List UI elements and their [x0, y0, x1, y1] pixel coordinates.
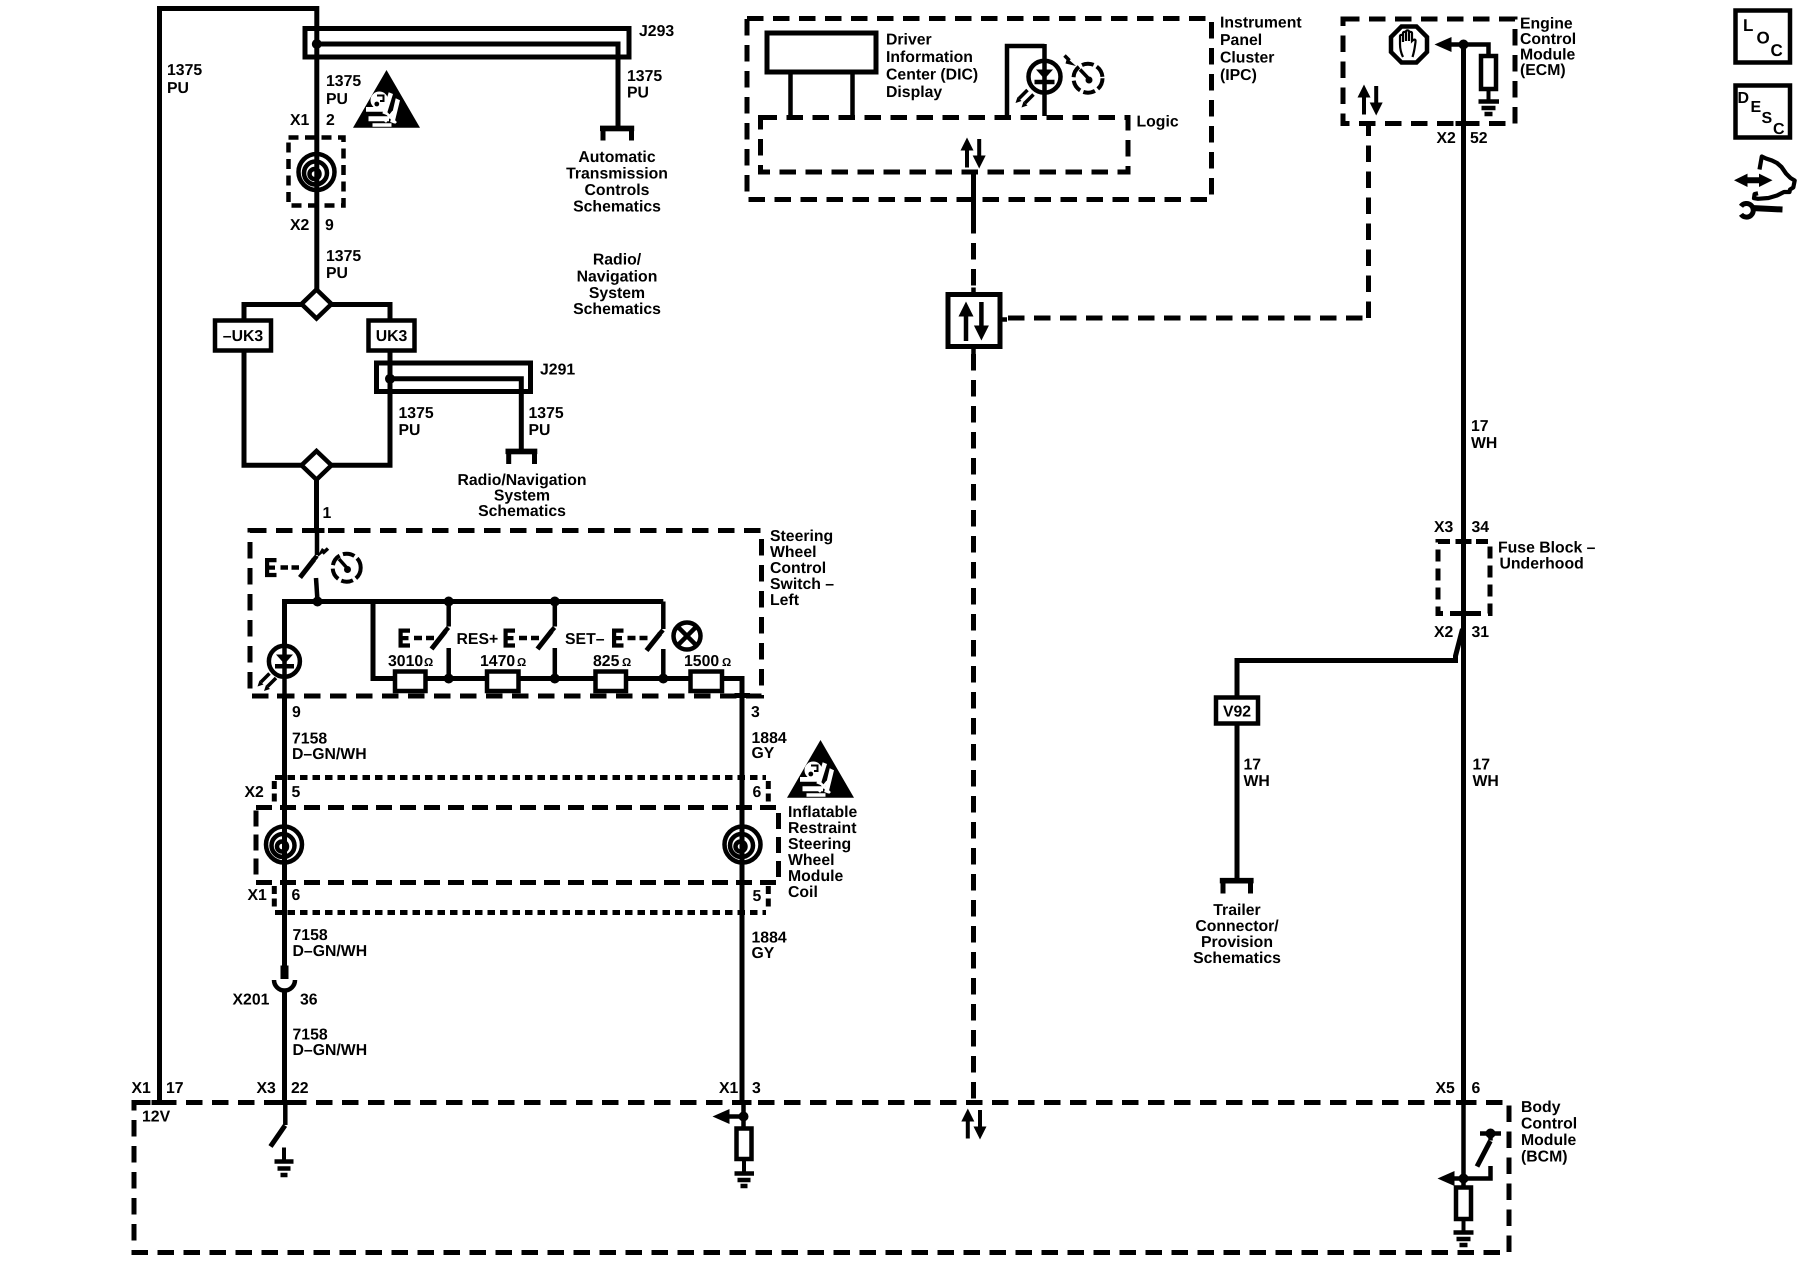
svg-text:Connector/: Connector/	[1195, 918, 1279, 935]
svg-text:17: 17	[1473, 757, 1491, 774]
svg-text:X2: X2	[1437, 130, 1457, 147]
serial data line ECM drop (dashed)	[1366, 124, 1371, 319]
svg-text:Schematics: Schematics	[573, 199, 661, 216]
wire J293 inner bus	[317, 44, 618, 126]
svg-text:Display: Display	[886, 84, 942, 101]
svg-text:52: 52	[1470, 130, 1488, 147]
svg-text:(IPC): (IPC)	[1220, 67, 1257, 84]
switch unit 1 (unlabeled)	[432, 602, 449, 679]
label 17 WH (upper)	[1471, 418, 1497, 452]
label X2 pin 9	[290, 217, 334, 234]
label Radio/Navigation System Schematics (upper)	[573, 252, 661, 319]
svg-text:1375: 1375	[399, 405, 434, 422]
tick X1-3 entry	[736, 1100, 752, 1105]
label Body Control Module (BCM)	[1521, 1099, 1577, 1166]
wire V92 to trailer connector	[1235, 724, 1240, 879]
actuator E symbol (top switch)	[265, 558, 299, 577]
label X1 pin 17	[132, 1080, 184, 1097]
svg-text:22: 22	[291, 1080, 309, 1097]
label Instrument Panel Cluster (IPC)	[1220, 15, 1302, 85]
tick X3-22 entry	[278, 1100, 294, 1105]
label Driver Information Center (DIC) Display	[886, 32, 978, 102]
resistor 3010 ohm	[388, 653, 433, 691]
label Radio/Navigation System Schematics (lower)	[457, 472, 586, 520]
DIC display box	[767, 33, 876, 72]
label 1884 GY (upper)	[752, 730, 787, 762]
label pin 1	[323, 505, 332, 522]
label 12V	[142, 1109, 171, 1126]
option box V92	[1216, 698, 1258, 724]
legend box DESC	[1736, 86, 1791, 139]
actuator E symbol (switch 2)	[504, 629, 540, 648]
svg-text:X1: X1	[248, 887, 268, 904]
svg-text:RES+: RES+	[457, 631, 499, 648]
svg-text:Schematics: Schematics	[478, 503, 566, 520]
LED indicator (IPC)	[1016, 61, 1061, 108]
junction dot rail at RES+	[444, 597, 454, 607]
svg-text:1375: 1375	[326, 248, 361, 265]
svg-text:Left: Left	[770, 592, 800, 609]
legend icon wiring navigation (swoosh outline)	[1754, 157, 1795, 199]
svg-text:1500: 1500	[684, 653, 719, 670]
svg-text:D–GN/WH: D–GN/WH	[293, 943, 368, 960]
svg-text:17: 17	[1471, 418, 1489, 435]
label Logic	[1137, 114, 1179, 131]
junction dot ECM	[1459, 40, 1469, 50]
svg-text:X5: X5	[1436, 1080, 1456, 1097]
serial data line IPC to gateway (dashed)	[971, 217, 976, 288]
option box UK3	[369, 321, 415, 351]
svg-text:12V: 12V	[142, 1109, 171, 1126]
svg-text:5: 5	[292, 784, 301, 801]
component box Body Control Module BCM (dashed)	[134, 1103, 1509, 1253]
svg-text:2: 2	[326, 112, 335, 129]
svg-text:Control: Control	[1521, 1116, 1577, 1133]
label X3 pin 34	[1434, 519, 1489, 536]
label 7158 D-GN/WH (lower)	[293, 1027, 368, 1060]
lamp symbol (circle-X)	[674, 623, 701, 650]
svg-text:PU: PU	[326, 91, 348, 108]
serial data arrows (inside Logic)	[961, 138, 986, 169]
label X1 pin 3	[719, 1080, 761, 1097]
svg-text:Driver: Driver	[886, 32, 932, 49]
label X2 pin 31	[1434, 624, 1489, 641]
switch to ground (X3-22 inside BCM)	[271, 1102, 286, 1147]
svg-text:SET–: SET–	[565, 631, 605, 648]
component box Instrument Panel Cluster IPC (dashed)	[747, 19, 1212, 200]
svg-text:L: L	[1743, 16, 1753, 35]
serial data line gateway to ECM (dashed)	[1008, 316, 1368, 321]
svg-text:Engine: Engine	[1520, 16, 1573, 33]
junction dot X5-6	[1459, 1174, 1469, 1184]
svg-text:Trailer: Trailer	[1213, 902, 1260, 919]
svg-text:PU: PU	[167, 80, 189, 97]
svg-text:WH: WH	[1471, 435, 1497, 452]
actuation arrow (top switch)	[316, 548, 328, 559]
wire coil right (6 to 5)	[740, 776, 745, 1104]
wire coil left (X2-5 to X1-6)	[282, 776, 287, 968]
svg-text:V92: V92	[1223, 704, 1251, 721]
switch unit 3 (SET-)	[647, 602, 664, 679]
tick X5-6 entry	[1456, 1100, 1472, 1105]
actuator E symbol (switch 3)	[612, 629, 648, 648]
svg-text:Ω: Ω	[424, 657, 433, 669]
wire diamond to switch pin 1	[314, 480, 319, 532]
svg-text:1375: 1375	[326, 73, 361, 90]
coil symbol right (spiral)	[725, 827, 761, 863]
wire logic to IPC edge (solid)	[971, 172, 976, 217]
voltage sense arrow (X1-3)	[713, 1109, 744, 1124]
svg-text:6: 6	[1472, 1080, 1481, 1097]
svg-text:PU: PU	[399, 422, 421, 439]
svg-text:Fuse Block –: Fuse Block –	[1498, 540, 1596, 557]
label X2 pin 5 (left)	[245, 784, 301, 801]
switch cruise on/off (top)	[300, 530, 318, 601]
svg-text:1470: 1470	[480, 653, 515, 670]
wire 12V feed left (X1-17 to top)	[160, 9, 320, 1103]
label 17 WH (V92 drop)	[1244, 757, 1270, 791]
svg-text:Ω: Ω	[517, 657, 526, 669]
connector box Fuse Block - Underhood (dashed)	[1438, 542, 1490, 614]
wire 1375 PU main vertical	[314, 6, 319, 290]
label 1375 PU (right of J293 drop)	[627, 68, 662, 102]
svg-text:Body: Body	[1521, 1099, 1561, 1116]
legend box LOC	[1736, 11, 1791, 63]
svg-text:Cluster: Cluster	[1220, 50, 1274, 67]
resistor 1470 ohm	[480, 653, 526, 691]
warning triangle SIR (upper)	[353, 70, 420, 128]
off-page connector to Radio/Navigation	[506, 451, 538, 464]
label 1375 PU (J291 drop)	[529, 405, 564, 439]
serial data arrows (inside BCM)	[961, 1109, 986, 1140]
svg-text:X1: X1	[290, 112, 310, 129]
svg-text:Wheel: Wheel	[788, 852, 835, 869]
svg-text:X3: X3	[1434, 519, 1454, 536]
ground symbol (X5-6)	[1454, 1219, 1474, 1245]
svg-text:D–GN/WH: D–GN/WH	[292, 746, 367, 763]
svg-text:X2: X2	[1434, 624, 1454, 641]
splice pack J293	[305, 29, 629, 58]
resistor 825 ohm	[593, 653, 631, 691]
label Inflatable Restraint Steering Wheel Module Coil (lower)	[788, 804, 858, 901]
connector row X2 (dotted)	[275, 775, 766, 780]
svg-text:UK3: UK3	[376, 328, 408, 345]
svg-text:(ECM): (ECM)	[1520, 62, 1566, 79]
ground symbol (X3-22)	[275, 1148, 294, 1176]
label Fuse Block - Underhood	[1498, 540, 1596, 573]
svg-text:O: O	[1757, 29, 1770, 48]
wire branch to UK3	[332, 305, 391, 321]
svg-text:Provision: Provision	[1201, 934, 1273, 951]
svg-text:Ω: Ω	[622, 657, 631, 669]
label Steering Wheel Control Switch - Left	[770, 528, 834, 609]
connector separator right X1	[766, 886, 771, 910]
wire branch to -UK3	[244, 305, 302, 321]
label 1884 GY (lower)	[752, 930, 787, 963]
wire ECM junction to resistor	[1464, 45, 1489, 59]
svg-text:GY: GY	[752, 745, 775, 762]
label RES+	[457, 631, 499, 648]
svg-text:C: C	[1773, 121, 1785, 138]
tick X2-52 exit	[1456, 121, 1472, 126]
junction dot bottom at 448	[444, 674, 454, 684]
connector separator right X2	[766, 781, 771, 805]
junction dot in J291	[385, 374, 395, 384]
ground symbol (X1-3)	[735, 1159, 755, 1186]
svg-text:System: System	[494, 488, 550, 505]
resistor 1500 ohm	[684, 653, 731, 691]
svg-text:825: 825	[593, 653, 620, 670]
junction dot bottom at 555	[550, 674, 560, 684]
splice pack J291	[377, 363, 531, 392]
wire UK3 through J291	[332, 351, 391, 466]
serial data line gateway to BCM (dashed)	[971, 354, 976, 1100]
label J291	[540, 362, 575, 379]
wire 17 WH main (ECM to BCM)	[1461, 45, 1466, 1105]
junction dot pin1 rail	[313, 597, 323, 607]
label 1375 PU (center wire)	[326, 73, 361, 108]
label pin 3	[751, 704, 760, 721]
label pin 5 (right)	[753, 888, 762, 905]
serial data arrows (inside ECM)	[1358, 85, 1383, 116]
svg-text:Inflatable: Inflatable	[788, 804, 858, 821]
svg-text:6: 6	[292, 887, 301, 904]
label X5 pin 6	[1436, 1080, 1481, 1097]
warning triangle SIR (lower)	[787, 740, 854, 798]
svg-text:PU: PU	[627, 85, 649, 102]
inline connector X201 (male/female)	[274, 966, 295, 1105]
label Engine Control Module (ECM)	[1520, 16, 1576, 80]
svg-text:Module: Module	[788, 868, 843, 885]
svg-text:X1: X1	[719, 1080, 739, 1097]
label 1375 PU (below coil)	[326, 248, 361, 282]
resistor (X1-3 pulldown)	[737, 1129, 752, 1160]
svg-text:PU: PU	[326, 265, 348, 282]
svg-text:Navigation: Navigation	[577, 269, 658, 286]
connector separator left X2	[272, 781, 277, 805]
backlight LED loop wire	[1007, 44, 1045, 116]
svg-text:Controls: Controls	[585, 182, 650, 199]
option box -UK3	[215, 321, 271, 351]
svg-text:Switch –: Switch –	[770, 576, 834, 593]
switch and sense (X5-6 inside BCM)	[1462, 1129, 1501, 1179]
wire X1-3 to resistor	[741, 1102, 746, 1130]
label X3 pin 22	[257, 1080, 309, 1097]
svg-text:1375: 1375	[529, 405, 564, 422]
svg-text:Radio/: Radio/	[593, 252, 642, 269]
svg-text:7158: 7158	[293, 927, 328, 944]
svg-text:X3: X3	[257, 1080, 277, 1097]
switch unit 2 (RES+)	[538, 602, 555, 679]
svg-text:36: 36	[300, 992, 318, 1009]
wire X5-6 to resistor	[1461, 1102, 1466, 1189]
label pin 6 (right)	[753, 784, 762, 801]
connector row X1 (dotted)	[275, 910, 766, 915]
legend icon wrench	[1741, 203, 1783, 217]
svg-text:WH: WH	[1244, 773, 1270, 790]
voltage sense arrow (X5-6)	[1438, 1171, 1465, 1186]
svg-text:Restraint: Restraint	[788, 820, 857, 837]
serial data arrows (gateway)	[959, 302, 989, 342]
gauge icon (speedometer, IPC)	[1065, 56, 1103, 93]
label X1 pin 2 (coil connector)	[290, 112, 335, 129]
splice diamond (upper)	[302, 290, 332, 319]
coil symbol left (spiral)	[266, 827, 302, 863]
svg-text:Ω: Ω	[722, 657, 731, 669]
svg-text:Transmission: Transmission	[566, 166, 668, 183]
svg-text:Schematics: Schematics	[1193, 950, 1281, 967]
svg-text:D–GN/WH: D–GN/WH	[293, 1042, 368, 1059]
coil symbol (upper spiral)	[299, 154, 335, 190]
svg-text:31: 31	[1472, 624, 1490, 641]
logic box (dashed)	[761, 118, 1129, 173]
svg-text:Steering: Steering	[788, 836, 851, 853]
svg-text:X1: X1	[132, 1080, 152, 1097]
svg-text:Coil: Coil	[788, 884, 818, 901]
tick X3-34 entry	[1456, 539, 1472, 544]
svg-text:34: 34	[1472, 519, 1490, 536]
svg-text:S: S	[1762, 110, 1773, 127]
ground symbol (ECM)	[1479, 89, 1500, 114]
svg-text:Control: Control	[770, 560, 826, 577]
svg-text:X2: X2	[245, 784, 265, 801]
svg-text:PU: PU	[529, 422, 551, 439]
svg-text:5: 5	[753, 888, 762, 905]
tick pin3 exit	[735, 693, 751, 698]
svg-text:3: 3	[752, 1080, 761, 1097]
svg-text:1884: 1884	[752, 930, 787, 947]
svg-text:GY: GY	[752, 945, 775, 962]
wire 1884 upper segment	[740, 694, 745, 779]
svg-text:1375: 1375	[167, 62, 202, 79]
svg-text:3: 3	[751, 704, 760, 721]
svg-text:Automatic: Automatic	[578, 149, 655, 166]
label X1 pin 6 (left)	[248, 887, 301, 904]
svg-text:Control: Control	[1520, 31, 1576, 48]
svg-text:Module: Module	[1521, 1132, 1576, 1149]
wire branch to V92 (kink)	[1237, 629, 1463, 699]
label Automatic Transmission Controls Schematics	[566, 149, 668, 216]
stop hand octagon	[1391, 27, 1427, 63]
resistor (X5-6 pulldown)	[1456, 1188, 1471, 1220]
svg-text:WH: WH	[1473, 773, 1499, 790]
wire 7158 upper segment	[282, 694, 287, 779]
label pin 9	[292, 704, 301, 721]
svg-text:Information: Information	[886, 49, 973, 66]
connector box Inflatable Restraint Steering Wheel Module Coil (upper, dashed)	[289, 138, 344, 206]
svg-text:9: 9	[292, 704, 301, 721]
component box Steering Wheel Control Switch - Left (dashed)	[250, 531, 762, 697]
off-page connector to Trailer	[1220, 881, 1254, 894]
tick X1-17 entry	[152, 1100, 168, 1105]
svg-text:Center (DIC): Center (DIC)	[886, 67, 978, 84]
svg-text:E: E	[1751, 99, 1762, 116]
off-page connector to Automatic Transmission Controls	[600, 128, 634, 140]
svg-text:Panel: Panel	[1220, 32, 1262, 49]
LED indicator (switch illumination)	[258, 645, 300, 698]
label Trailer Connector/ Provision Schematics	[1193, 902, 1281, 967]
junction dot in J293	[312, 39, 322, 49]
gauge icon (speedometer, switch)	[333, 554, 361, 582]
junction dot bottom at 663	[658, 674, 668, 684]
svg-text:7158: 7158	[292, 731, 327, 748]
DIC display legs	[791, 72, 853, 116]
resistor (ECM pullup)	[1481, 56, 1496, 89]
label 1375 PU (left wire)	[167, 62, 202, 97]
wire J291 inner bus	[390, 379, 521, 449]
svg-text:J291: J291	[540, 362, 575, 379]
wire switch rail	[285, 602, 664, 645]
svg-text:Underhood: Underhood	[1500, 556, 1584, 573]
label X201 pin 36	[233, 992, 318, 1009]
svg-text:J293: J293	[639, 23, 674, 40]
svg-text:X2: X2	[290, 217, 310, 234]
tick pin9 exit	[277, 694, 293, 699]
label 7158 D-GN/WH (upper)	[292, 731, 367, 764]
junction dot X1-3	[739, 1112, 749, 1122]
svg-text:C: C	[1771, 41, 1783, 60]
actuator E symbol (switch 1)	[399, 629, 435, 648]
component box Engine Control Module ECM (dashed)	[1343, 19, 1515, 124]
svg-text:System: System	[589, 285, 645, 302]
splice diamond (lower)	[302, 451, 332, 480]
svg-text:–UK3: –UK3	[223, 328, 264, 345]
junction dot rail at SET-	[550, 597, 560, 607]
label X2 pin 52	[1437, 130, 1488, 147]
tick X2-31 exit	[1456, 611, 1472, 616]
svg-text:1375: 1375	[627, 68, 662, 85]
component box Inflatable Restraint Steering Wheel Module Coil (lower, dashed)	[256, 808, 779, 883]
svg-text:D: D	[1738, 90, 1750, 107]
svg-text:17: 17	[1244, 757, 1262, 774]
label 7158 D-GN/WH (mid)	[293, 927, 368, 960]
svg-text:Schematics: Schematics	[573, 301, 661, 318]
wire -UK3 to lower loop	[244, 351, 302, 466]
serial data gateway box	[948, 288, 1007, 355]
svg-text:17: 17	[166, 1080, 184, 1097]
svg-text:9: 9	[325, 217, 334, 234]
svg-text:7158: 7158	[293, 1027, 328, 1044]
legend icon double arrow	[1734, 174, 1773, 187]
data arrow into octagon	[1435, 37, 1464, 52]
wire resistor ladder bottom	[373, 602, 742, 699]
svg-text:6: 6	[753, 784, 762, 801]
svg-text:3010: 3010	[388, 653, 423, 670]
label J293	[639, 23, 674, 40]
svg-text:Instrument: Instrument	[1220, 15, 1302, 32]
label SET-	[565, 631, 605, 648]
svg-text:1: 1	[323, 505, 332, 522]
svg-text:Logic: Logic	[1137, 114, 1179, 131]
svg-text:Radio/Navigation: Radio/Navigation	[457, 472, 586, 489]
tick pin1 entry	[309, 528, 325, 533]
svg-text:Module: Module	[1520, 47, 1575, 64]
svg-text:X201: X201	[233, 992, 270, 1009]
connector separator left X1	[272, 886, 277, 910]
label 1375 PU (UK3 drop)	[399, 405, 434, 439]
label 17 WH (lower right)	[1473, 757, 1499, 791]
svg-text:Steering: Steering	[770, 528, 833, 545]
svg-text:(BCM): (BCM)	[1521, 1149, 1568, 1166]
svg-text:Wheel: Wheel	[770, 544, 817, 561]
